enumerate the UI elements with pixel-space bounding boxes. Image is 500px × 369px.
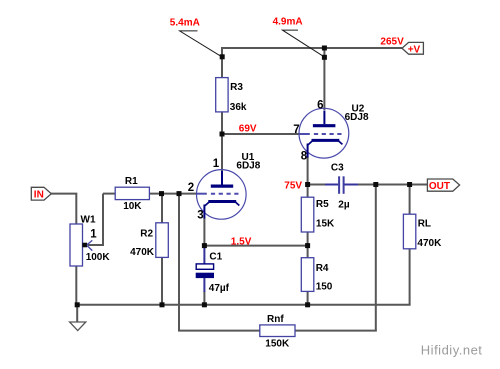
svg-text:R5: R5 xyxy=(316,199,329,210)
svg-text:3: 3 xyxy=(197,209,203,221)
svg-text:47µf: 47µf xyxy=(209,283,230,294)
svg-text:36k: 36k xyxy=(230,102,247,113)
svg-text:7: 7 xyxy=(293,124,299,136)
svg-text:R1: R1 xyxy=(125,176,138,187)
svg-text:C3: C3 xyxy=(331,162,344,173)
svg-text:2µ: 2µ xyxy=(338,199,350,210)
svg-text:1.5V: 1.5V xyxy=(231,237,252,248)
svg-text:C1: C1 xyxy=(209,252,222,263)
svg-text:2: 2 xyxy=(188,182,194,194)
svg-text:1: 1 xyxy=(213,158,220,170)
svg-text:15K: 15K xyxy=(316,218,335,229)
svg-text:R2: R2 xyxy=(140,228,153,239)
svg-text:265V: 265V xyxy=(380,37,404,48)
svg-text:75V: 75V xyxy=(284,180,302,191)
svg-text:150: 150 xyxy=(316,281,333,292)
svg-text:1: 1 xyxy=(90,228,97,240)
svg-text:470K: 470K xyxy=(130,247,155,258)
svg-text:470K: 470K xyxy=(417,238,442,249)
svg-text:6: 6 xyxy=(317,100,323,112)
svg-text:IN: IN xyxy=(34,189,44,200)
svg-text:69V: 69V xyxy=(239,123,257,134)
svg-text:OUT: OUT xyxy=(429,181,450,192)
svg-text:RL: RL xyxy=(418,219,431,230)
svg-text:R3: R3 xyxy=(230,82,243,93)
svg-text:5.4mA: 5.4mA xyxy=(170,17,200,28)
svg-text:4.9mA: 4.9mA xyxy=(273,17,303,28)
svg-text:6DJ8: 6DJ8 xyxy=(236,161,260,172)
svg-text:100K: 100K xyxy=(86,252,111,263)
svg-text:W1: W1 xyxy=(81,214,96,225)
svg-text:Rnf: Rnf xyxy=(267,314,284,325)
svg-text:+V: +V xyxy=(408,44,421,55)
svg-text:Hifidiy.net: Hifidiy.net xyxy=(421,342,483,357)
svg-text:150K: 150K xyxy=(265,338,290,349)
svg-text:R4: R4 xyxy=(316,263,329,274)
svg-text:8: 8 xyxy=(301,150,308,162)
svg-text:6DJ8: 6DJ8 xyxy=(345,112,369,123)
svg-text:10K: 10K xyxy=(123,201,142,212)
